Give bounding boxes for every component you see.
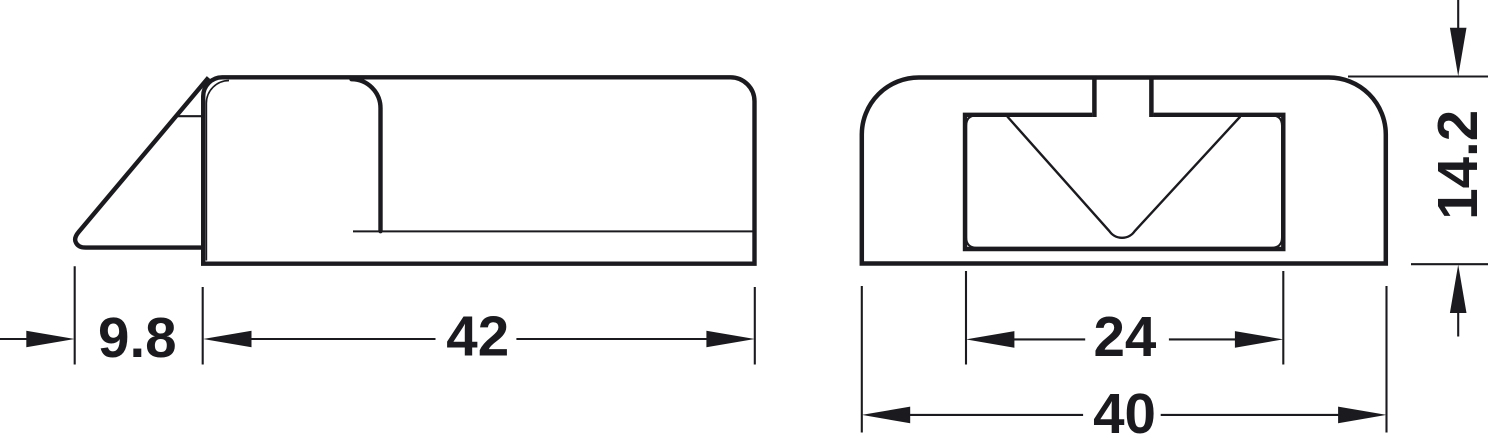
svg-text:9.8: 9.8 <box>98 306 177 369</box>
svg-text:24: 24 <box>1093 305 1156 368</box>
svg-text:40: 40 <box>1093 382 1156 442</box>
svg-text:42: 42 <box>446 305 509 368</box>
svg-text:14.2: 14.2 <box>1426 110 1488 220</box>
